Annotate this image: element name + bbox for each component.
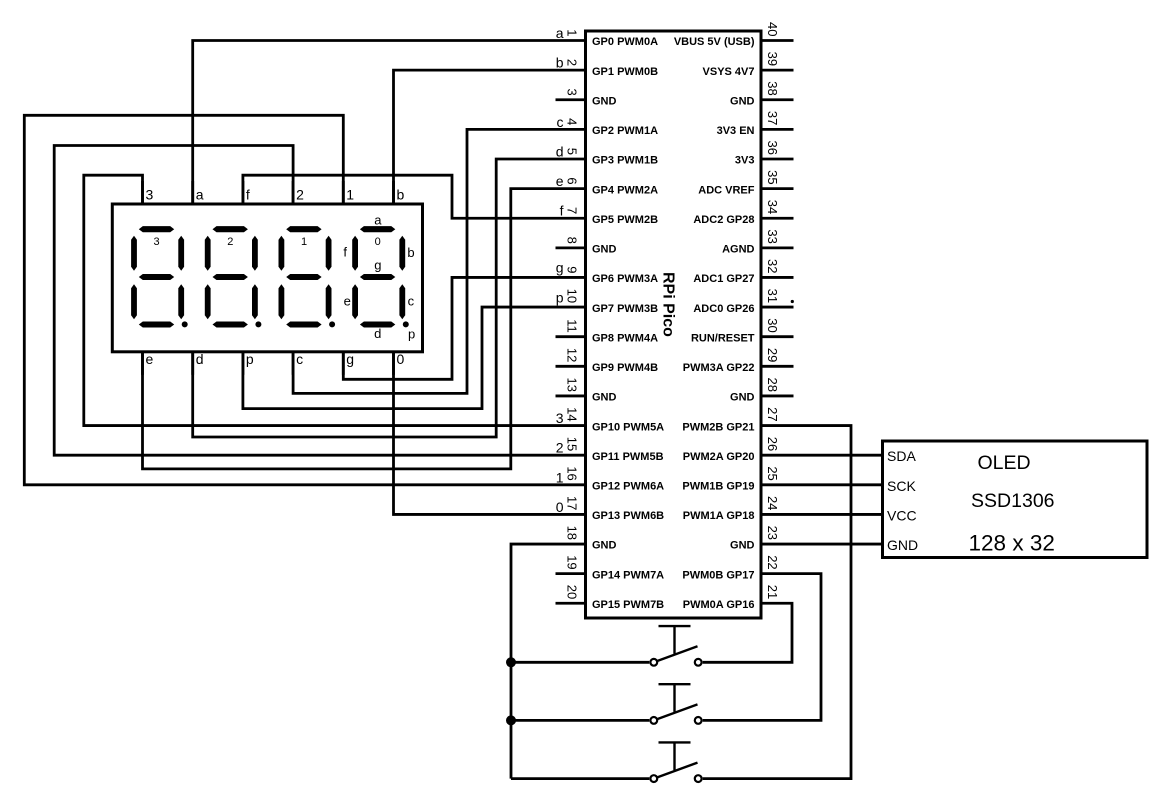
svg-text:GP6 PWM3A: GP6 PWM3A — [592, 273, 658, 285]
pin 7 GP5 PWM2B (left) — [556, 217, 586, 220]
display bottom pin d stub — [191, 352, 194, 375]
pin 34 ADC2 GP28 (right) — [761, 217, 794, 220]
pin 32 ADC1 GP27 (right) — [761, 276, 794, 279]
pushbutton S2 lever — [654, 704, 698, 720]
svg-text:14: 14 — [565, 407, 580, 421]
svg-text:e: e — [556, 173, 564, 189]
pushbutton S2 actuator — [659, 683, 691, 685]
svg-text:38: 38 — [765, 81, 780, 95]
svg-text:2: 2 — [556, 440, 564, 456]
svg-text:a: a — [196, 187, 204, 203]
wire net 3: U1 pin14 to display pin 3 — [84, 175, 556, 425]
svg-text:4: 4 — [565, 118, 580, 125]
svg-text:27: 27 — [765, 407, 780, 421]
svg-text:21: 21 — [765, 585, 780, 599]
svg-text:3V3: 3V3 — [735, 155, 755, 167]
svg-text:GND: GND — [730, 392, 755, 404]
svg-text:3: 3 — [565, 89, 580, 96]
svg-text:12: 12 — [565, 348, 580, 362]
pin 39 VSYS 4V7 (right) — [761, 69, 794, 72]
svg-text:AGND: AGND — [722, 244, 754, 256]
display top pin b stub — [392, 181, 395, 204]
display bottom pin 0 stub — [392, 352, 395, 375]
svg-text:1: 1 — [565, 29, 580, 36]
svg-text:d: d — [196, 351, 204, 367]
pushbutton S1 lever — [654, 646, 698, 662]
svg-text:6: 6 — [565, 177, 580, 184]
wire net b: U1 pin2 to display pin b — [394, 70, 556, 204]
wire SCK: U1 pin25 to OLED SCK — [761, 483, 883, 486]
svg-text:GND: GND — [887, 537, 918, 553]
pin 8 GND (left) — [556, 246, 586, 249]
pin 6 GP4 PWM2A (left) — [556, 187, 586, 190]
svg-text:34: 34 — [765, 200, 780, 214]
OLED module U2 SSD1306 body — [883, 441, 1148, 558]
pushbutton S1 left terminal — [650, 659, 657, 666]
svg-text:GND: GND — [592, 392, 617, 404]
junction dot GND bus at S2 — [506, 715, 516, 725]
svg-text:GP14 PWM7A: GP14 PWM7A — [592, 569, 664, 581]
svg-text:8: 8 — [565, 237, 580, 244]
display bottom pin p stub — [241, 352, 244, 375]
svg-text:VCC: VCC — [887, 507, 917, 523]
pushbutton S1 actuator — [659, 625, 691, 627]
svg-text:GP12 PWM6A: GP12 PWM6A — [592, 481, 664, 493]
stray dot artifact near pin 31 — [791, 300, 794, 303]
pin 12 GP9 PWM4B (left) — [556, 365, 586, 368]
pushbutton S3 right terminal — [695, 775, 702, 782]
microcontroller U1 RPi Pico body — [586, 31, 762, 618]
svg-text:ADC0 GP26: ADC0 GP26 — [693, 303, 754, 315]
pushbutton S1 right terminal — [695, 659, 702, 666]
pushbutton S3 lever — [654, 763, 698, 779]
wire net f: U1 pin7 to display pin f — [243, 175, 556, 218]
pin 5 GP3 PWM1B (left) — [556, 158, 586, 161]
svg-text:22: 22 — [765, 555, 780, 569]
wire SDA: U1 pin26 to OLED SDA — [761, 454, 883, 457]
wire GP21: U1 pin27 to switch S3 — [703, 426, 851, 779]
svg-text:33: 33 — [765, 229, 780, 243]
svg-text:7: 7 — [565, 207, 580, 214]
svg-text:0: 0 — [397, 351, 405, 367]
pin 2 GP1 PWM0B (left) — [556, 69, 586, 72]
pin 4 GP2 PWM1A (left) — [556, 128, 586, 131]
svg-text:1: 1 — [301, 236, 307, 248]
svg-text:PWM1A GP18: PWM1A GP18 — [683, 510, 755, 522]
svg-text:17: 17 — [565, 496, 580, 510]
svg-text:ADC1 GP27: ADC1 GP27 — [693, 273, 754, 285]
svg-text:GP11 PWM5B: GP11 PWM5B — [592, 451, 664, 463]
pin 38 GND (right) — [761, 98, 794, 101]
wire GND bus: U1 pin18 to switches — [511, 544, 556, 779]
svg-text:29: 29 — [765, 348, 780, 362]
display bottom pin c stub — [292, 352, 295, 375]
svg-text:2: 2 — [565, 59, 580, 66]
pin 13 GND (left) — [556, 395, 586, 398]
pin 14 GP10 PWM5A (left) — [556, 424, 586, 427]
pin 33 AGND (right) — [761, 246, 794, 249]
pin 1 GP0 PWM0A (left) — [556, 39, 586, 42]
display top pin 1 stub — [342, 181, 345, 204]
7-seg digit 0 decimal point — [403, 321, 409, 327]
svg-text:OLED: OLED — [977, 452, 1030, 474]
svg-text:PWM2B GP21: PWM2B GP21 — [682, 421, 754, 433]
wire GND bus to S1 left terminal — [511, 661, 649, 664]
svg-text:0: 0 — [375, 236, 381, 248]
svg-text:3V3 EN: 3V3 EN — [717, 125, 755, 137]
svg-text:GP10 PWM5A: GP10 PWM5A — [592, 421, 664, 433]
svg-text:c: c — [557, 114, 564, 130]
pin 30 RUN/RESET (right) — [761, 335, 794, 338]
display top pin a stub — [191, 181, 194, 204]
svg-text:ADC2 GP28: ADC2 GP28 — [693, 214, 754, 226]
svg-text:2: 2 — [296, 187, 304, 203]
svg-text:p: p — [408, 327, 415, 342]
svg-text:18: 18 — [565, 526, 580, 540]
svg-text:PWM0B GP17: PWM0B GP17 — [682, 569, 754, 581]
svg-text:3: 3 — [146, 187, 154, 203]
pin 40 VBUS 5V (USB) (right) — [761, 39, 794, 42]
pin 28 GND (right) — [761, 395, 794, 398]
svg-text:GP13 PWM6B: GP13 PWM6B — [592, 510, 664, 522]
svg-text:GP0 PWM0A: GP0 PWM0A — [592, 36, 658, 48]
wire net 2: U1 pin15 to display pin 2 — [54, 146, 555, 456]
wire net p: U1 pin10 to display pin p — [243, 307, 556, 409]
pin 29 PWM3A GP22 (right) — [761, 365, 794, 368]
svg-text:35: 35 — [765, 170, 780, 184]
pin 18 GND (left) — [556, 543, 586, 546]
svg-text:ADC VREF: ADC VREF — [698, 184, 755, 196]
svg-text:GP4 PWM2A: GP4 PWM2A — [592, 184, 658, 196]
svg-text:24: 24 — [765, 496, 780, 510]
svg-text:2: 2 — [227, 236, 233, 248]
svg-text:PWM2A GP20: PWM2A GP20 — [683, 451, 755, 463]
svg-text:GND: GND — [730, 95, 755, 107]
pin 37 3V3 EN (right) — [761, 128, 794, 131]
pin 9 GP6 PWM3A (left) — [556, 276, 586, 279]
svg-text:11: 11 — [565, 319, 580, 333]
svg-text:40: 40 — [765, 22, 780, 36]
svg-text:0: 0 — [556, 499, 564, 515]
svg-text:19: 19 — [565, 555, 580, 569]
svg-text:1: 1 — [556, 469, 564, 485]
svg-text:GND: GND — [592, 95, 617, 107]
svg-text:RPi Pico: RPi Pico — [660, 272, 677, 337]
svg-text:39: 39 — [765, 52, 780, 66]
svg-text:d: d — [374, 326, 381, 341]
svg-text:32: 32 — [765, 259, 780, 273]
svg-text:GP15 PWM7B: GP15 PWM7B — [592, 599, 664, 611]
pin 35 ADC VREF (right) — [761, 187, 794, 190]
svg-text:9: 9 — [565, 266, 580, 273]
pin 20 GP15 PWM7B (left) — [556, 602, 586, 605]
pushbutton S2 left terminal — [650, 717, 657, 724]
svg-text:c: c — [408, 294, 415, 309]
wire net g: U1 pin9 to display pin g — [343, 277, 555, 379]
svg-text:26: 26 — [765, 437, 780, 451]
7-seg digit 1 — [279, 226, 332, 327]
svg-text:PWM0A GP16: PWM0A GP16 — [683, 599, 755, 611]
pin 19 GP14 PWM7A (left) — [556, 572, 586, 575]
display bottom pin e stub — [141, 352, 144, 375]
wire net 1: U1 pin16 to display pin 1 — [24, 115, 555, 485]
svg-text:p: p — [246, 351, 254, 367]
svg-text:10: 10 — [565, 289, 580, 303]
svg-text:3: 3 — [154, 236, 160, 248]
7-seg digit 3 decimal point — [182, 321, 188, 327]
svg-text:g: g — [556, 260, 564, 276]
pin 36 3V3 (right) — [761, 158, 794, 161]
display top pin 2 stub — [292, 181, 295, 204]
4-digit 7-segment display DS1 body — [112, 204, 422, 352]
svg-text:25: 25 — [765, 466, 780, 480]
svg-text:GP7 PWM3B: GP7 PWM3B — [592, 303, 658, 315]
svg-text:VBUS 5V (USB): VBUS 5V (USB) — [674, 36, 755, 48]
svg-text:c: c — [296, 351, 303, 367]
wire net a: U1 pin1 to display pin a — [193, 41, 556, 205]
svg-text:g: g — [374, 258, 381, 273]
svg-text:d: d — [556, 143, 564, 159]
pin 17 GP13 PWM6B (left) — [556, 513, 586, 516]
svg-text:15: 15 — [565, 437, 580, 451]
wire net 0: U1 pin17 to display pin 0 — [394, 352, 556, 515]
svg-text:f: f — [560, 203, 564, 219]
svg-text:GND: GND — [592, 540, 617, 552]
svg-text:GP2 PWM1A: GP2 PWM1A — [592, 125, 658, 137]
7-seg digit 1 decimal point — [329, 321, 335, 327]
svg-text:SCK: SCK — [887, 478, 916, 494]
wire GND: U1 pin23 to OLED GND — [761, 543, 883, 546]
svg-text:SSD1306: SSD1306 — [971, 490, 1054, 512]
wire net c: U1 pin4 to display pin c — [293, 129, 555, 393]
svg-text:RUN/RESET: RUN/RESET — [691, 332, 755, 344]
svg-text:g: g — [346, 351, 354, 367]
svg-text:3: 3 — [556, 410, 564, 426]
wire GND bus to S3 left terminal — [511, 777, 649, 780]
display bottom pin g stub — [342, 352, 345, 375]
svg-text:a: a — [374, 212, 382, 227]
svg-text:28: 28 — [765, 377, 780, 391]
svg-text:PWM1B GP19: PWM1B GP19 — [682, 481, 754, 493]
svg-text:16: 16 — [565, 466, 580, 480]
7-seg digit 0 — [352, 226, 405, 327]
pin 11 GP8 PWM4A (left) — [556, 335, 586, 338]
svg-text:1: 1 — [346, 187, 354, 203]
svg-text:b: b — [407, 245, 414, 260]
svg-text:f: f — [246, 187, 250, 203]
svg-text:GP8 PWM4A: GP8 PWM4A — [592, 332, 658, 344]
svg-text:37: 37 — [765, 111, 780, 125]
wire GND bus to S2 left terminal — [511, 719, 649, 722]
svg-text:SDA: SDA — [887, 448, 916, 464]
pin 15 GP11 PWM5B (left) — [556, 454, 586, 457]
svg-text:GP9 PWM4B: GP9 PWM4B — [592, 362, 658, 374]
svg-text:128 x 32: 128 x 32 — [969, 531, 1055, 556]
display top pin 3 stub — [141, 181, 144, 204]
wire net e: U1 pin6 to display pin e — [143, 189, 556, 469]
svg-text:36: 36 — [765, 141, 780, 155]
7-seg digit 2 — [205, 226, 258, 327]
pin 16 GP12 PWM6A (left) — [556, 483, 586, 486]
wire GP16: U1 pin21 to switch S1 — [703, 603, 792, 662]
pin 3 GND (left) — [556, 98, 586, 101]
pin 10 GP7 PWM3B (left) — [556, 306, 586, 309]
svg-text:31: 31 — [765, 289, 780, 303]
pushbutton S3 left terminal — [650, 775, 657, 782]
svg-text:e: e — [344, 294, 351, 309]
display top pin f stub — [241, 181, 244, 204]
svg-text:30: 30 — [765, 318, 780, 332]
pushbutton S2 right terminal — [695, 717, 702, 724]
7-seg digit 3 — [131, 226, 184, 327]
svg-text:GP5 PWM2B: GP5 PWM2B — [592, 214, 658, 226]
svg-text:p: p — [556, 289, 564, 305]
7-seg digit 2 decimal point — [255, 321, 261, 327]
pin 31 ADC0 GP26 (right) — [761, 306, 794, 309]
svg-text:13: 13 — [565, 377, 580, 391]
wire net d: U1 pin5 to display pin d — [193, 159, 556, 437]
svg-text:5: 5 — [565, 148, 580, 155]
svg-text:PWM3A GP22: PWM3A GP22 — [683, 362, 755, 374]
svg-text:a: a — [556, 25, 564, 41]
svg-text:GP1 PWM0B: GP1 PWM0B — [592, 66, 658, 78]
svg-text:GND: GND — [592, 244, 617, 256]
svg-text:b: b — [556, 55, 564, 71]
svg-text:23: 23 — [765, 526, 780, 540]
svg-text:e: e — [146, 351, 154, 367]
junction dot GND bus at S1 — [506, 657, 516, 667]
svg-text:b: b — [397, 187, 405, 203]
svg-text:f: f — [343, 244, 347, 259]
svg-text:GND: GND — [730, 540, 755, 552]
svg-text:20: 20 — [565, 585, 580, 599]
svg-text:VSYS 4V7: VSYS 4V7 — [703, 66, 755, 78]
wire VCC: U1 pin24 to OLED VCC — [761, 513, 883, 516]
pushbutton S3 actuator — [659, 741, 691, 743]
wire GP17: U1 pin22 to switch S2 — [703, 574, 821, 721]
svg-text:GP3 PWM1B: GP3 PWM1B — [592, 155, 658, 167]
